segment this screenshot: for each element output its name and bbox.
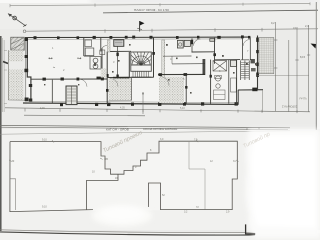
bottom rules — [0, 230, 255, 235]
mid wall segment — [163, 56, 192, 64]
white-out blob right — [245, 129, 320, 238]
left dimension line column — [2, 38, 8, 112]
white bottom strip — [0, 233, 320, 240]
dim text above bottom line — [40, 98, 307, 110]
svg-text:ΟΙΚΟΔ ΟΡΟΦΗ ΔΙΑΤΑΞΗ: ΟΙΚΟΔ ΟΡΟΦΗ ΔΙΑΤΑΞΗ — [143, 127, 177, 131]
svg-text:105: 105 — [104, 158, 109, 161]
kitchen blocks far right — [230, 60, 236, 92]
upper plan interior white fill — [27, 38, 257, 105]
small core box with stair — [66, 86, 77, 105]
door arc lower-left — [80, 79, 88, 87]
stipple floor left room — [159, 77, 184, 103]
clutter specks — [44, 44, 257, 94]
left page border — [0, 36, 2, 231]
svg-text:ΥΨ ΠΛ: ΥΨ ΠΛ — [299, 98, 307, 101]
stippled floor room below hall — [109, 78, 132, 101]
right edge black triangle — [311, 44, 317, 49]
svg-text:9,10: 9,10 — [42, 206, 47, 209]
top wall piers — [34, 35, 251, 39]
bathroom column fixtures right — [213, 61, 227, 100]
title line 1 rule — [103, 10, 318, 13]
right dimension verticals — [262, 22, 310, 112]
window block on top wall — [210, 39, 215, 42]
lower plan interior walls — [101, 141, 205, 210]
svg-text:ΠΛΑΝ Γ ΟΡΟΦ · ΚΛ 1:50: ΠΛΑΝ Γ ΟΡΟΦ · ΚΛ 1:50 — [134, 8, 169, 12]
svg-text:8,15: 8,15 — [300, 55, 306, 59]
upper strip subtle light — [0, 3, 320, 29]
stipple wall mid — [162, 40, 165, 88]
lower plan dimension specks — [12, 138, 237, 213]
bottom wall piers — [60, 102, 238, 106]
top wall of plan — [25, 37, 250, 39]
bathroom B (top middle) — [100, 38, 131, 79]
lower plan tick marks — [9, 140, 239, 162]
left strip dividing wall — [31, 77, 107, 80]
door arc D — [194, 39, 201, 46]
svg-text:9,2: 9,2 — [271, 21, 275, 25]
bathroom cluster A fixtures — [85, 40, 101, 69]
bottom wall of plan — [23, 101, 238, 104]
svg-text:5,10: 5,10 — [180, 107, 185, 110]
lower plan left inner step — [10, 179, 16, 210]
white page top strip — [0, 0, 320, 3]
bathroom cluster A walls — [84, 38, 102, 72]
svg-text:2,4: 2,4 — [305, 24, 309, 28]
hall walls around stair — [97, 38, 155, 104]
title line 1 text — [134, 8, 169, 12]
stair hatch box top-left — [11, 37, 24, 50]
stair lower flight — [131, 71, 151, 77]
lower strip lighter paper — [0, 129, 320, 230]
svg-text:ΚΑΤ ΟΨ - ΟΡΟΦ: ΚΑΤ ΟΨ - ΟΡΟΦ — [106, 127, 130, 131]
north arrow — [8, 14, 27, 27]
terrace bottom edge line — [258, 74, 310, 76]
right building wall — [243, 36, 259, 91]
lower plan notch wall — [87, 174, 118, 210]
room labels upper plan — [52, 46, 249, 81]
title line 2 text — [106, 127, 260, 132]
right section bottom wall — [238, 88, 263, 105]
central fan stair — [131, 52, 152, 71]
double rule between plans — [0, 125, 290, 129]
svg-text:4,35: 4,35 — [120, 106, 125, 109]
interior: left living room arrows — [49, 58, 82, 68]
rule under title 2 — [0, 131, 290, 134]
main left wall with jog — [25, 38, 31, 103]
patio fine-grid terrace — [259, 38, 274, 74]
white right page margin — [317, 0, 320, 240]
lower plan interior white fill — [10, 141, 237, 211]
bottom dimension line of upper plan — [5, 92, 310, 116]
svg-text:3,90: 3,90 — [40, 107, 45, 110]
stipple wall above hall — [107, 40, 110, 52]
datum line with circle — [23, 28, 318, 33]
svg-text:3,1: 3,1 — [293, 26, 297, 30]
corridor walls right-middle — [158, 38, 240, 105]
svg-text:Α: Α — [246, 127, 248, 131]
white-out blob bottom middle — [92, 205, 152, 227]
corner L mark — [246, 224, 256, 234]
benchmark flag — [137, 21, 144, 31]
left wall piers — [24, 38, 32, 102]
terrace stipple band left upper — [8, 50, 26, 100]
stairwell right flights — [241, 60, 250, 80]
lower plan outline left run — [10, 142, 93, 212]
top dimension line — [10, 2, 310, 7]
bath D fixtures top — [177, 38, 193, 52]
right dim labels — [271, 21, 309, 59]
right page edge line — [315, 2, 317, 130]
svg-text:ΣΥΝ ΑΝΟΔΟΣ: ΣΥΝ ΑΝΟΔΟΣ — [282, 106, 298, 109]
small bath floor left of hall — [101, 69, 107, 78]
lower plan outline upper run — [10, 141, 237, 209]
top scan streak — [90, 0, 320, 2]
lower-left rooms wall — [51, 80, 53, 103]
svg-text:9,10: 9,10 — [42, 139, 47, 142]
door arc B — [101, 46, 107, 52]
